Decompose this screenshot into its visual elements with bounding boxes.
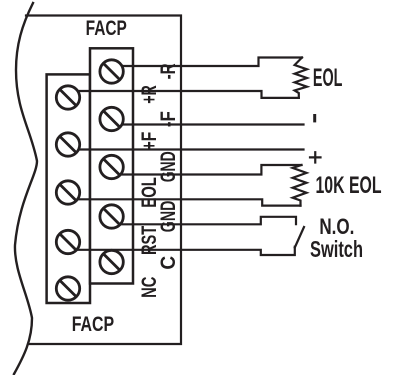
svg-text:EOL: EOL bbox=[313, 64, 343, 92]
svg-text:C: C bbox=[157, 256, 180, 270]
svg-text:-F: -F bbox=[157, 111, 180, 127]
svg-text:NC: NC bbox=[138, 277, 161, 298]
svg-text:+F: +F bbox=[138, 132, 161, 151]
svg-text:FACP: FACP bbox=[72, 313, 115, 336]
svg-text:Switch: Switch bbox=[310, 236, 363, 262]
svg-text:RST: RST bbox=[138, 226, 161, 255]
svg-text:-R: -R bbox=[157, 63, 180, 79]
svg-text:+R: +R bbox=[138, 85, 161, 104]
svg-text:10K EOL: 10K EOL bbox=[316, 172, 382, 199]
svg-text:FACP: FACP bbox=[86, 17, 127, 40]
